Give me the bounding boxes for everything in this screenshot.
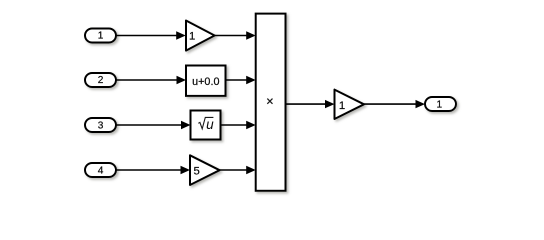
gain G1 — [186, 21, 215, 51]
svg-text:4: 4 — [98, 165, 104, 176]
wire product to gain out — [286, 103, 327, 105]
wire port2 to bias — [116, 79, 179, 81]
svg-text:5: 5 — [193, 165, 199, 177]
inport 1 — [85, 29, 116, 43]
inport 2 — [85, 73, 116, 87]
bias block u+0.0 — [186, 66, 226, 96]
arrowhead into bias — [177, 76, 187, 84]
wire port3 to sqrt — [116, 124, 183, 126]
wire port4 to gain5 — [116, 169, 183, 171]
wire gain1 to product port1 — [215, 35, 248, 37]
product block — [256, 14, 286, 191]
wire gain5 to product port4 — [220, 169, 248, 171]
product multiply symbol — [267, 99, 272, 104]
wire port1 to gain1 — [116, 35, 178, 37]
wire bias to product port2 — [226, 79, 249, 81]
svg-text:1: 1 — [98, 30, 104, 41]
arrowhead into outport — [416, 100, 426, 108]
wire gain out to outport — [364, 103, 418, 105]
arrowhead into product port2 — [246, 76, 256, 84]
arrowhead into product port1 — [246, 31, 256, 39]
svg-text:u: u — [206, 117, 214, 132]
svg-text:u+0.0: u+0.0 — [192, 76, 219, 88]
sqrt block — [191, 111, 221, 140]
arrowhead into product port3 — [246, 121, 256, 129]
outport 1 — [425, 97, 456, 111]
arrowhead into gain out — [325, 100, 335, 108]
gain G5 — [190, 155, 220, 185]
arrowhead into product port4 — [246, 166, 256, 174]
wire sqrt to product port3 — [221, 124, 249, 126]
inport 3 — [85, 118, 116, 132]
inport 4 — [85, 163, 116, 177]
arrowhead into sqrt — [181, 121, 191, 129]
sqrt radical glyph — [198, 117, 214, 132]
svg-text:1: 1 — [189, 31, 195, 43]
svg-text:2: 2 — [98, 75, 104, 86]
gain G-out — [335, 90, 365, 119]
svg-text:1: 1 — [436, 100, 442, 111]
arrowhead into gain5 — [181, 166, 191, 174]
arrowhead into gain1 — [176, 31, 186, 39]
svg-text:3: 3 — [98, 120, 104, 131]
svg-text:1: 1 — [339, 100, 345, 112]
